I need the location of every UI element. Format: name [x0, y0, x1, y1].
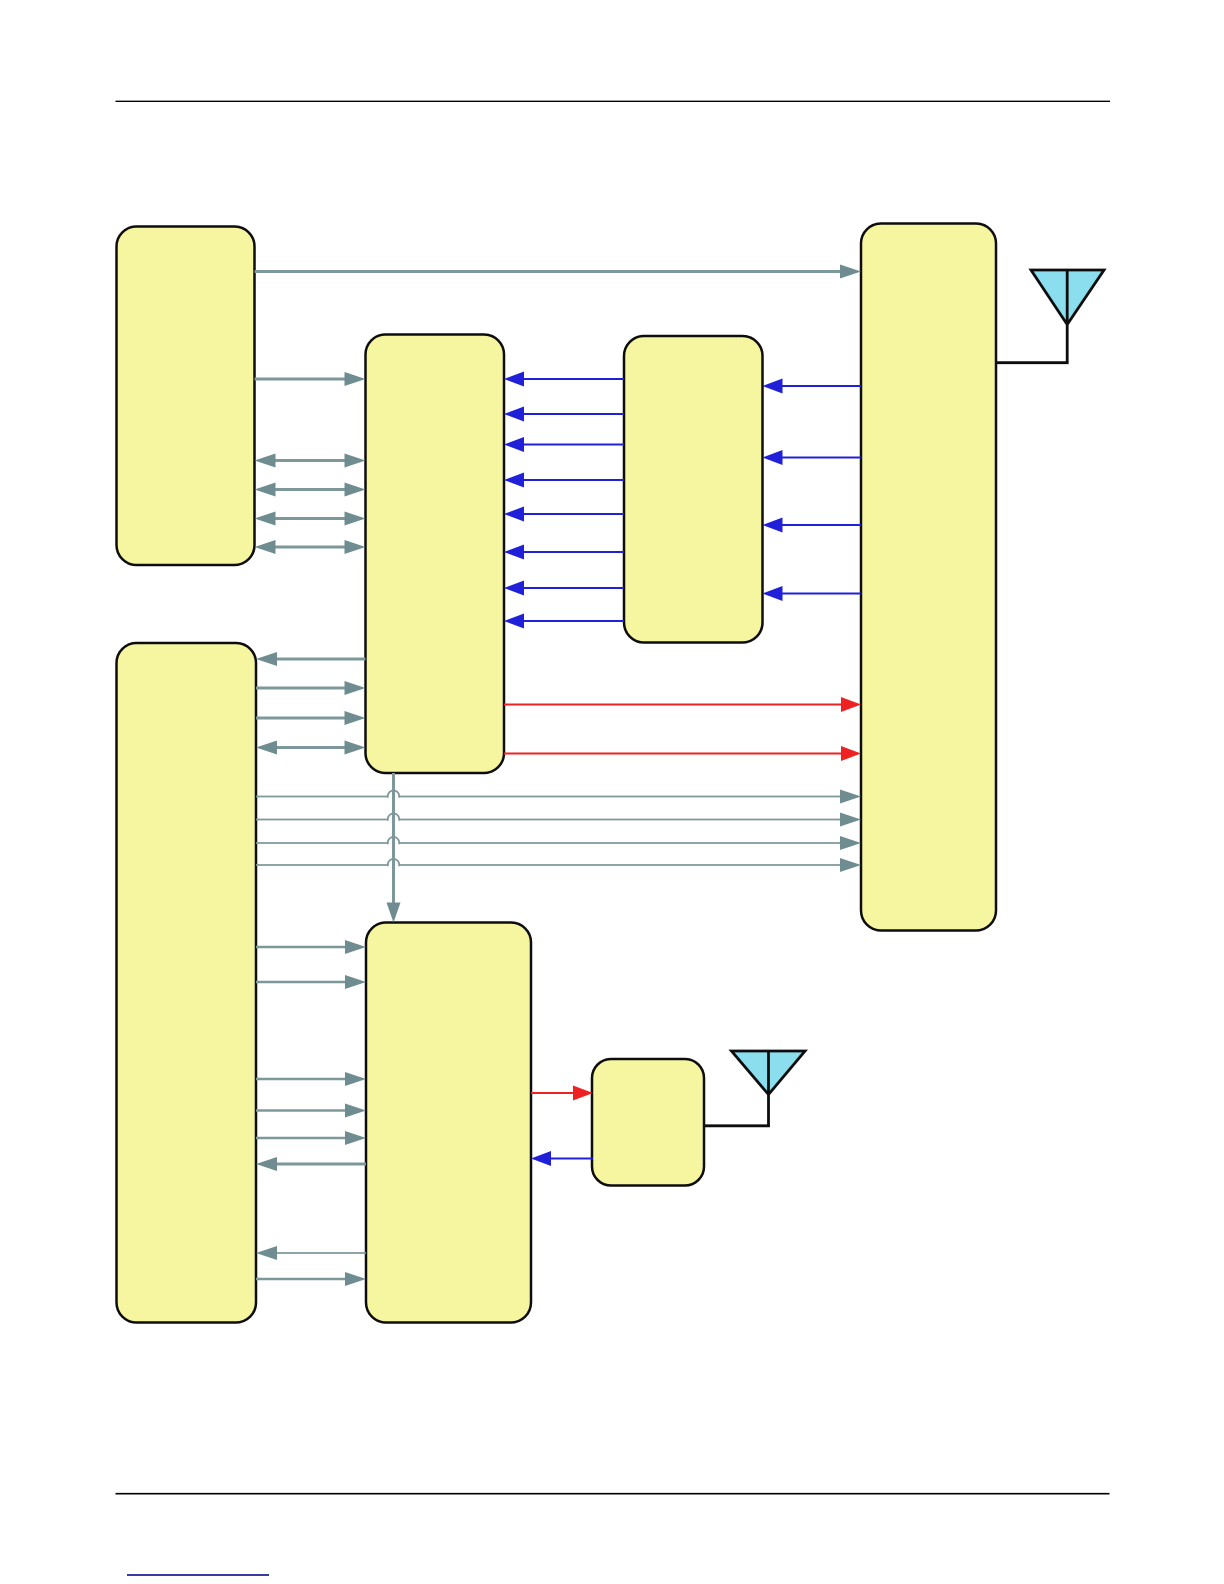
- wire rx C-to-B 2: [504, 407, 624, 422]
- wire baseband-to-connectivity vertical: [387, 773, 401, 923]
- block connectivity: [366, 923, 531, 1323]
- wire bus E-to-D 4: [256, 858, 861, 872]
- header rule: [116, 100, 1111, 102]
- wire bus E-to-D 2: [256, 813, 861, 827]
- wire rx C-to-B 8: [504, 614, 624, 629]
- wire rx D-to-C 3: [763, 518, 862, 533]
- wire bus E-to-D 1: [256, 790, 861, 804]
- wire ANT1 feed: [996, 361, 1069, 364]
- footer hyperlink underline: [127, 1574, 269, 1576]
- wire rx D-to-C 4: [763, 586, 862, 601]
- footer rule: [116, 1493, 1110, 1495]
- wire A-to-B: [255, 372, 366, 386]
- wire tx B-to-D 1: [504, 697, 861, 712]
- wire rx C-to-B 5: [504, 507, 624, 522]
- block rx-filter: [624, 336, 763, 643]
- wire rx G-to-F: [531, 1151, 593, 1166]
- wire E-to-F 6: [256, 1272, 366, 1286]
- antenna ANT2: [732, 1051, 806, 1126]
- wire A-B bidir 1: [255, 454, 366, 468]
- wire A-B bidir 4: [255, 540, 366, 554]
- wire rx C-to-B 3: [504, 437, 624, 452]
- wire F-to-E 2: [256, 1246, 366, 1260]
- wire ctrl A-to-D: [255, 265, 862, 279]
- block baseband: [366, 335, 505, 774]
- wire B-to-E: [256, 652, 366, 666]
- wire E-to-F 4: [256, 1104, 366, 1118]
- wire E-to-B 2: [256, 711, 366, 725]
- wire rx C-to-B 7: [504, 581, 624, 596]
- wire rx C-to-B 6: [504, 545, 624, 560]
- wire ANT2 feed: [704, 1124, 770, 1127]
- wire E-B bidir: [256, 741, 366, 755]
- wire bus E-to-D 3: [256, 836, 861, 850]
- wire tx B-to-D 2: [504, 746, 861, 761]
- block fm-radio: [592, 1059, 704, 1186]
- wire A-B bidir 3: [255, 512, 366, 526]
- antenna ANT1: [1031, 270, 1104, 363]
- wire E-to-F 1: [256, 940, 366, 954]
- wire rx C-to-B 4: [504, 473, 624, 488]
- wire tx F-to-G: [531, 1086, 593, 1101]
- block rf-transceiver: [861, 224, 996, 931]
- wire E-to-F 5: [256, 1131, 366, 1145]
- wire E-to-B 1: [256, 681, 366, 695]
- wire F-to-E 1: [256, 1157, 366, 1171]
- wire A-B bidir 2: [255, 483, 366, 497]
- wire rx D-to-C 2: [763, 450, 862, 465]
- block host-processor: [117, 227, 255, 566]
- wire E-to-F 2: [256, 975, 366, 989]
- wire rx C-to-B 1: [504, 372, 624, 387]
- block memory-controller: [117, 643, 257, 1323]
- wire E-to-F 3: [256, 1072, 366, 1086]
- wire rx D-to-C 1: [763, 379, 862, 394]
